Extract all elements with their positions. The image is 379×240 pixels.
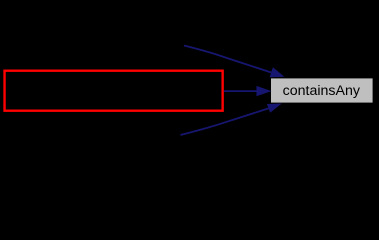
svg-text:containsAny: containsAny [283,83,361,99]
